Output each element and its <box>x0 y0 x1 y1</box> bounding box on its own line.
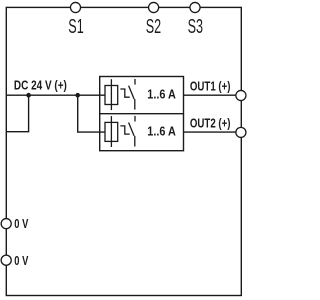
divider between channel 1 and channel 2 <box>100 113 184 115</box>
device outline frame <box>6 7 241 295</box>
terminal S1 <box>70 2 80 12</box>
svg-text:OUT1 (+): OUT1 (+) <box>190 79 231 93</box>
fuse F2 <box>105 116 118 147</box>
svg-text:0 V: 0 V <box>14 217 28 231</box>
terminal S2 <box>149 2 159 12</box>
switch contact channel 2 <box>129 116 135 147</box>
svg-text:0 V: 0 V <box>14 254 28 268</box>
breaker module box <box>100 77 184 151</box>
svg-text:DC 24 V (+): DC 24 V (+) <box>14 78 67 92</box>
svg-text:1..6 A: 1..6 A <box>147 123 176 138</box>
wire branch to channel 2 <box>78 95 105 132</box>
svg-text:S1: S1 <box>68 16 83 38</box>
svg-text:S3: S3 <box>188 16 203 38</box>
svg-text:S2: S2 <box>146 16 161 38</box>
wire DC 24 V supply <box>6 94 105 96</box>
terminal S3 <box>190 2 200 12</box>
terminal OUT2 <box>236 127 246 137</box>
trip linkage channel 2 <box>120 126 129 134</box>
junction node 2 <box>75 93 80 98</box>
terminal OUT1 <box>236 90 246 100</box>
wire OUT1 <box>184 94 237 96</box>
svg-text:OUT2 (+): OUT2 (+) <box>190 116 231 130</box>
fuse F1 <box>105 79 118 110</box>
wire OUT2 <box>184 131 237 133</box>
svg-text:1..6 A: 1..6 A <box>147 86 176 101</box>
junction node 1 <box>26 93 31 98</box>
trip linkage channel 1 <box>120 89 129 97</box>
switch contact channel 1 <box>129 79 135 110</box>
terminal 0V upper <box>1 219 11 229</box>
wire left branch to frame <box>6 95 28 132</box>
terminal 0V lower <box>1 255 11 265</box>
